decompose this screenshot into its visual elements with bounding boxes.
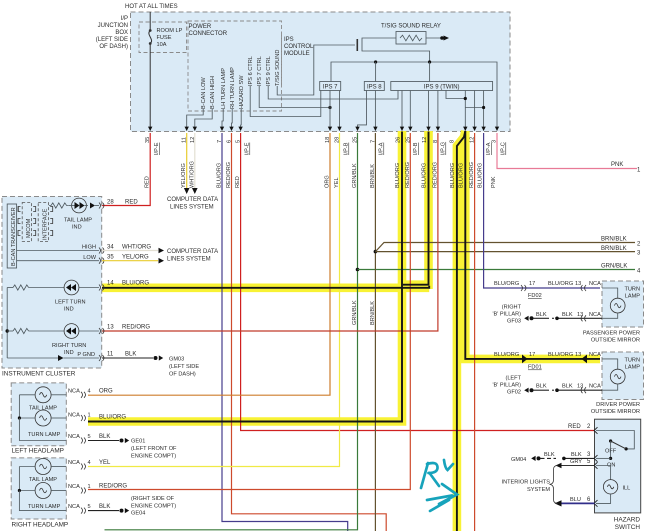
wire RED/ORG pin12 long run to bottom [474, 133, 476, 531]
B-CAN HIGH wire [17, 250, 99, 252]
left headlamp box [11, 383, 66, 446]
svg-text:TURN: TURN [624, 358, 640, 364]
wire RED pin5 to hazard switch [241, 133, 595, 431]
left headlamp inner vertical [18, 395, 20, 418]
svg-text:I/P-A: I/P-A [379, 142, 385, 155]
wire from box top to fuse [149, 12, 151, 30]
IPS 6 CTRL lead to IPS7 block [250, 86, 321, 117]
black core BLU/ORG pin8 wire down past annotation [457, 131, 465, 531]
T/SIG sound relay coil box [396, 32, 426, 45]
svg-text:18: 18 [325, 137, 331, 143]
right headlamp BLK lead [19, 491, 66, 511]
B-CAN LOW wire [17, 260, 99, 262]
ground GF02 symbol [524, 388, 528, 393]
svg-text:T/SIG SOUND: T/SIG SOUND [275, 50, 281, 86]
RH TURN LAMP label lead to pin 6 [231, 109, 234, 131]
wire BRN/BLK branch 2 to right edge [375, 243, 635, 252]
IPS 8 block [364, 82, 384, 91]
T/SIG SOUND lead to relay contact [277, 45, 355, 95]
svg-text:IPS: IPS [284, 37, 294, 43]
svg-text:BLU/ORG: BLU/ORG [494, 281, 519, 287]
wire RED/ORG pin25 to right headlamp turn lamp [88, 133, 410, 490]
svg-text:BLK: BLK [544, 452, 555, 458]
svg-text:IND: IND [72, 225, 82, 231]
svg-text:JUNCTION: JUNCTION [98, 23, 128, 29]
wire BLU/ORG I/P-A to passenger mirror [484, 133, 600, 288]
svg-text:ILL: ILL [623, 485, 631, 491]
svg-text:RED/ORG: RED/ORG [122, 325, 150, 331]
svg-text:NCA: NCA [589, 281, 601, 287]
svg-text:BLU/ORG: BLU/ORG [494, 352, 519, 358]
wire BRN/BLK pin7 long run to bottom [374, 133, 376, 531]
IPS 9 (TWIN) block [391, 82, 493, 91]
svg-text:ORG: ORG [99, 388, 113, 394]
wire YEL pin28 to right headlamp tail lamp [88, 133, 340, 467]
svg-text:(LEFT: (LEFT [505, 376, 521, 382]
svg-text:4: 4 [88, 460, 91, 466]
wire RED/ORG pin6 long run to bottom [232, 133, 387, 531]
svg-text:LINES SYSTEM: LINES SYSTEM [167, 257, 211, 263]
svg-text:INTERFACE: INTERFACE [43, 208, 49, 240]
svg-text:SYSTEM: SYSTEM [527, 487, 550, 493]
svg-text:NCA: NCA [589, 352, 601, 358]
IPS9 inner jog wires [446, 91, 465, 99]
B-CAN HIGH label lead to pin 12 [195, 109, 212, 131]
svg-text:BLU/ORG: BLU/ORG [99, 415, 126, 421]
svg-text:SWITCH: SWITCH [615, 524, 641, 531]
right headlamp turn lamp bulb [19, 483, 66, 499]
tail lamp ind resistor [49, 203, 69, 208]
svg-text:ROOM LP: ROOM LP [157, 28, 183, 34]
svg-text:1: 1 [88, 484, 91, 490]
svg-text:TURN LAMP: TURN LAMP [28, 432, 61, 438]
svg-text:B-CAN TRANSCEIVER: B-CAN TRANSCEIVER [11, 207, 17, 266]
passenger power outside mirror box [602, 281, 644, 327]
svg-text:IPS 9 (TWIN): IPS 9 (TWIN) [424, 85, 460, 91]
svg-text:(LEFT FRONT OF: (LEFT FRONT OF [131, 446, 177, 452]
svg-text:11: 11 [182, 137, 188, 143]
cluster pin labels [107, 200, 151, 358]
svg-text:FD02: FD02 [528, 293, 542, 299]
wire BLU/ORG pin7 long run to bottom [222, 133, 348, 531]
cluster edge connector marks [99, 203, 104, 362]
LH TURN LAMP label lead to pin 7 [222, 109, 223, 131]
svg-text:BLU/ORG: BLU/ORG [217, 163, 223, 188]
svg-text:NCA: NCA [68, 460, 80, 466]
svg-text:13: 13 [577, 312, 583, 318]
svg-text:8: 8 [450, 140, 456, 143]
svg-text:NCA: NCA [68, 413, 80, 419]
hazard switch box [595, 419, 641, 513]
svg-text:YEL: YEL [334, 177, 340, 188]
svg-text:10A: 10A [157, 42, 167, 48]
BLK wire to GE01 [88, 440, 119, 442]
svg-text:NCA: NCA [68, 504, 80, 510]
BLK wire GF03 to mirror [534, 317, 603, 319]
svg-text:28: 28 [107, 200, 114, 206]
svg-text:YEL: YEL [99, 460, 111, 466]
hazard ILL bulb [603, 480, 630, 494]
IPS 9 CTRL lead to IPS9 block [268, 86, 398, 99]
left turn ind resistor [7, 285, 64, 290]
svg-text:BLU/ORG: BLU/ORG [122, 281, 149, 287]
IPS9 top pin wire [429, 62, 431, 82]
GRY wire with arrow [561, 465, 595, 467]
yellow highlighter band over BLU/ORG wire to driver mirror [465, 131, 600, 359]
BLK wire pin11 to GM03 ground [102, 357, 153, 359]
svg-text:BRN/BLK: BRN/BLK [601, 246, 627, 252]
IPS8 output staircase to GRN/BLK pin 25 [358, 91, 367, 131]
black core BLU/ORG pin12 wire [403, 132, 429, 285]
svg-text:TAIL LAMP: TAIL LAMP [29, 477, 57, 483]
svg-text:OUTSIDE MIRROR: OUTSIDE MIRROR [591, 338, 640, 344]
svg-text:BLU/ORG: BLU/ORG [458, 163, 464, 188]
junction dot IPS9 feed [428, 60, 431, 63]
driver power outside mirror box [602, 352, 644, 400]
svg-text:WHT/ORG: WHT/ORG [189, 161, 195, 188]
FD02 connector marks [521, 285, 586, 291]
svg-text:IND: IND [64, 350, 74, 356]
svg-text:MICOM: MICOM [26, 218, 32, 238]
svg-text:BLK: BLK [562, 312, 573, 318]
svg-text:BLK: BLK [536, 312, 547, 318]
right headlamp connector labels [68, 460, 91, 510]
svg-text:12: 12 [422, 137, 428, 143]
svg-text:'B' PILLAR): 'B' PILLAR) [492, 312, 521, 318]
BLK wire GF02 to mirror [534, 389, 603, 391]
svg-text:6: 6 [227, 140, 233, 143]
svg-text:BLK: BLK [99, 434, 110, 440]
svg-text:35: 35 [107, 255, 114, 261]
svg-text:GF03: GF03 [507, 319, 521, 325]
svg-text:1: 1 [88, 413, 91, 419]
hazard switch internal feed wire [596, 431, 634, 449]
relay output wire with dot and arrow [426, 37, 443, 39]
svg-text:RIGHT HEADLAMP: RIGHT HEADLAMP [12, 522, 69, 529]
svg-text:BLU/ORG: BLU/ORG [450, 163, 456, 188]
I/P junction box / IPS control module main box [131, 12, 511, 132]
svg-text:HAZARD: HAZARD [614, 517, 641, 524]
svg-text:NCA: NCA [589, 312, 601, 318]
wire RED/ORG pin8 to cluster pin13 [102, 133, 438, 331]
BLK wire to GE04 [88, 510, 119, 512]
svg-text:IPS 7: IPS 7 [323, 85, 338, 91]
svg-text:17: 17 [529, 281, 535, 287]
YEL pin 28 wire inside box [339, 91, 341, 131]
black core cluster pin14 BLU/ORG wire [102, 286, 429, 288]
IPS bus wire y62 [331, 62, 497, 131]
svg-text:I/P-G: I/P-G [441, 142, 447, 155]
hazard switch blade OFF [605, 439, 628, 454]
svg-text:I/P: I/P [121, 16, 128, 22]
svg-text:BLU/ORG: BLU/ORG [548, 281, 573, 287]
svg-text:RED: RED [125, 200, 138, 206]
yellow highlighter band over BLU/ORG pin12 wire [403, 131, 429, 285]
hazard connector chevrons [594, 427, 598, 506]
wire RED pin35 to cluster pin28 [102, 133, 150, 206]
svg-text:FUSE: FUSE [157, 35, 172, 41]
svg-text:HOT AT ALL TIMES: HOT AT ALL TIMES [125, 4, 178, 10]
svg-text:TURN LAMP: TURN LAMP [28, 504, 61, 510]
svg-text:RED/ORG: RED/ORG [405, 162, 411, 188]
box texts [96, 4, 441, 57]
left headlamp BLK lead [19, 418, 66, 441]
svg-text:NCA: NCA [589, 384, 601, 390]
svg-text:INTERIOR LIGHTS: INTERIOR LIGHTS [502, 480, 551, 486]
svg-text:YEL/ORG: YEL/ORG [122, 255, 149, 261]
svg-text:IPS 7 CTRL: IPS 7 CTRL [257, 56, 263, 86]
svg-text:I/P-B: I/P-B [413, 142, 419, 155]
svg-text:BLK: BLK [571, 452, 582, 458]
svg-text:ORG: ORG [325, 175, 331, 188]
svg-text:5: 5 [88, 504, 91, 510]
svg-text:RIGHT TURN: RIGHT TURN [52, 343, 86, 349]
svg-text:28: 28 [335, 137, 341, 143]
svg-text:OUTSIDE MIRROR: OUTSIDE MIRROR [591, 409, 640, 415]
fuse F1 room LP fuse [149, 29, 152, 45]
svg-text:4: 4 [88, 388, 91, 394]
IPS7 output wire to ORG pin 18 [329, 91, 331, 131]
ground GE04 symbol [120, 509, 124, 513]
wire ORG pin18 to left headlamp tail lamp [88, 133, 330, 395]
BLU wire with arrow [561, 502, 595, 504]
svg-text:MODULE: MODULE [284, 51, 310, 57]
room LP fuse dashed box [139, 22, 187, 53]
svg-text:LH TURN LAMP: LH TURN LAMP [221, 68, 227, 109]
left headlamp tail lamp bulb [19, 387, 66, 403]
wire GRN/BLK branch 4 to right edge [358, 269, 636, 271]
svg-text:RED/ORG: RED/ORG [226, 162, 232, 188]
junction dot IPS7 ctrl / ORG output [328, 106, 331, 109]
svg-text:5: 5 [88, 434, 91, 440]
junction dot BRN/BLK [374, 250, 378, 254]
P GND wire with diode [7, 355, 99, 361]
wire BRN/BLK branch 3 to right edge [375, 251, 635, 253]
svg-text:25: 25 [353, 137, 359, 143]
svg-text:COMPUTER DATA: COMPUTER DATA [167, 249, 218, 255]
right headlamp tail lamp bulb [19, 459, 66, 475]
rotated wire color labels below box border [145, 161, 497, 188]
svg-text:RED/ORG: RED/ORG [99, 484, 127, 490]
svg-text:GRY: GRY [570, 459, 582, 465]
svg-text:GRN/BLK: GRN/BLK [352, 163, 358, 188]
svg-text:BLK: BLK [562, 384, 573, 390]
svg-text:OF DASH): OF DASH) [169, 372, 196, 378]
svg-text:13: 13 [575, 281, 581, 287]
svg-text:WHT/ORG: WHT/ORG [122, 245, 151, 251]
svg-text:(RIGHT SIDE OF: (RIGHT SIDE OF [131, 496, 175, 502]
svg-text:34: 34 [107, 245, 114, 251]
svg-text:(LEFT SIDE: (LEFT SIDE [169, 364, 199, 370]
svg-text:RED: RED [568, 424, 581, 430]
relay contact bar [356, 39, 358, 51]
svg-text:HAZARD SW: HAZARD SW [239, 75, 245, 109]
svg-text:(RIGHT: (RIGHT [502, 305, 522, 311]
B-CAN transceiver box [7, 204, 17, 268]
FD01 connector row labels [494, 352, 601, 371]
svg-text:I/P-C: I/P-C [501, 142, 507, 155]
svg-text:LAMP: LAMP [625, 294, 641, 300]
driver mirror turn lamp bulb [602, 359, 625, 390]
svg-text:PNK: PNK [491, 176, 497, 188]
svg-text:CONNECTOR: CONNECTOR [189, 31, 228, 37]
computer data lines arrows (cluster) [102, 250, 158, 252]
svg-text:BLK: BLK [125, 352, 136, 358]
svg-text:11: 11 [107, 352, 114, 358]
svg-text:GM04: GM04 [511, 457, 526, 463]
svg-text:IPS 8: IPS 8 [367, 85, 382, 91]
svg-text:GRN/BLK: GRN/BLK [352, 300, 358, 325]
svg-text:HIGH: HIGH [82, 245, 96, 251]
wire GRN/BLK pin25 long run [105, 133, 358, 530]
B-CAN LOW label lead to pin 11 [187, 109, 204, 131]
ground GM03 symbol [154, 356, 158, 360]
svg-text:I/P-E: I/P-E [154, 142, 160, 155]
svg-text:POWER: POWER [189, 24, 212, 30]
svg-text:LINES SYSTEM: LINES SYSTEM [170, 205, 214, 211]
relay coil return wire [362, 38, 430, 62]
svg-text:RED: RED [235, 176, 241, 188]
IPS 7 CTRL lead tap on ORG output [259, 86, 330, 108]
black core BLU/ORG wire to driver mirror FD01 [465, 131, 600, 359]
instrument cluster box [2, 197, 102, 369]
svg-text:3: 3 [492, 140, 498, 143]
left headlamp turn lamp bulb [19, 410, 66, 426]
svg-text:NCA: NCA [68, 484, 80, 490]
svg-text:NCA: NCA [68, 388, 80, 394]
junction dot GRN/BLK [356, 268, 360, 272]
ground GF03 symbol [524, 316, 528, 321]
svg-text:13: 13 [107, 325, 114, 331]
svg-text:BLK: BLK [536, 384, 547, 390]
svg-text:LOW: LOW [83, 255, 96, 261]
svg-text:IPS 6 CTRL: IPS 6 CTRL [248, 56, 254, 86]
black core BLU/ORG pin26 wire to left headlamp turn lamp [88, 132, 402, 422]
svg-text:14: 14 [107, 281, 114, 287]
IPS 7 block [320, 82, 341, 91]
relay coil resistor zigzag [400, 35, 422, 41]
svg-text:BLK: BLK [99, 504, 110, 510]
right headlamp inner vertical [18, 467, 20, 491]
svg-text:TAIL LAMP: TAIL LAMP [64, 218, 92, 224]
hazard switch pole wire [610, 441, 612, 458]
svg-text:LAMP: LAMP [625, 365, 641, 371]
passenger mirror turn lamp bulb [602, 288, 625, 318]
svg-text:'B' PILLAR): 'B' PILLAR) [492, 383, 521, 389]
svg-text:GRN/BLK: GRN/BLK [601, 264, 627, 270]
svg-text:I/P-A: I/P-A [486, 142, 492, 155]
svg-text:RED/ORG: RED/ORG [432, 162, 438, 188]
hazard ILL lamp internal wires [596, 466, 611, 480]
svg-text:BOX: BOX [115, 30, 128, 36]
svg-text:LEFT HEADLAMP: LEFT HEADLAMP [12, 448, 64, 455]
svg-text:GF02: GF02 [507, 390, 521, 396]
internal bracket connectors [18, 207, 53, 236]
INTERFACE dashed box [38, 203, 48, 242]
svg-text:26: 26 [396, 137, 402, 143]
svg-text:GM03: GM03 [169, 357, 184, 363]
svg-text:IND: IND [64, 307, 74, 313]
svg-text:T/SIG SOUND RELAY: T/SIG SOUND RELAY [381, 24, 441, 30]
svg-text:I/P-B: I/P-B [344, 142, 350, 155]
svg-text:RED/ORG: RED/ORG [469, 162, 475, 188]
svg-text:B-CAN HIGH: B-CAN HIGH [210, 76, 216, 109]
MICOM dashed box [22, 203, 32, 242]
svg-text:17: 17 [529, 352, 535, 358]
BLK row hazard [596, 457, 611, 459]
svg-text:I/P-E: I/P-E [245, 142, 251, 155]
hand-drawn teal annotation R with arrow [421, 460, 457, 511]
interior lights system bracket [550, 466, 558, 504]
svg-text:(LEFT SIDE: (LEFT SIDE [96, 37, 128, 43]
svg-text:12: 12 [190, 137, 196, 143]
HAZARD SW label lead to pin 5 [240, 109, 243, 131]
cluster left vertical bus [6, 288, 8, 359]
svg-text:BLU: BLU [570, 497, 581, 503]
svg-text:ENGINE COMPT): ENGINE COMPT) [131, 454, 176, 460]
yellow highlighter band over cluster pin14 wire [102, 283, 429, 292]
svg-text:P GND: P GND [77, 352, 95, 358]
svg-text:7: 7 [217, 140, 223, 143]
FD02 connector row labels [494, 281, 601, 299]
svg-text:GE04: GE04 [131, 511, 145, 517]
FD01 connector arrows [522, 355, 528, 364]
arrowhead end WHT/ORG [192, 188, 198, 194]
IPS8 output wire to BRN/BLK pin 7 [374, 91, 376, 131]
rotated pin numbers below box border [145, 137, 497, 143]
svg-text:DRIVER POWER: DRIVER POWER [596, 402, 640, 408]
left turn ind LED [64, 280, 99, 295]
svg-text:ENGINE COMPT): ENGINE COMPT) [131, 504, 176, 510]
svg-text:13: 13 [577, 384, 583, 390]
svg-text:INSTRUMENT CLUSTER: INSTRUMENT CLUSTER [2, 371, 76, 378]
wire YEL/ORG pin11 to computer data lines [186, 133, 188, 188]
svg-text:BRN/BLK: BRN/BLK [370, 164, 376, 188]
tail lamp ind LED [69, 198, 88, 213]
svg-text:7: 7 [370, 140, 376, 143]
IPS8 top pin wire [375, 62, 377, 82]
junction dot IPS8 feed [374, 60, 377, 63]
power connector dashed box [188, 21, 282, 111]
svg-text:BLU/ORG: BLU/ORG [395, 163, 401, 188]
svg-text:TURN: TURN [624, 287, 640, 293]
svg-text:RH TURN LAMP: RH TURN LAMP [230, 67, 236, 109]
arrowhead end YEL/ORG [184, 188, 190, 194]
svg-text:PNK: PNK [611, 162, 623, 168]
svg-text:8: 8 [433, 140, 439, 143]
svg-text:BRN/BLK: BRN/BLK [601, 237, 627, 243]
yellow highlighter band over BLU/ORG pin8 wire [457, 131, 465, 531]
svg-text:NCA: NCA [68, 434, 80, 440]
svg-text:13: 13 [575, 352, 581, 358]
right headlamp box [11, 458, 66, 519]
svg-text:35: 35 [145, 137, 151, 143]
wire WHT/ORG pin12 to computer data lines [194, 133, 196, 188]
junction dot cluster bus [6, 329, 9, 332]
right turn ind resistor [7, 328, 64, 333]
yellow highlighter band over BLU/ORG pin26 wire to left headlamp [88, 131, 402, 422]
svg-text:BRN/BLK: BRN/BLK [370, 301, 376, 325]
rotated connector names below box border [154, 142, 507, 155]
left headlamp connector labels [68, 388, 91, 440]
svg-text:25: 25 [405, 137, 411, 143]
svg-text:5: 5 [236, 140, 242, 143]
svg-text:LEFT TURN: LEFT TURN [55, 300, 86, 306]
svg-text:BLU/ORG: BLU/ORG [548, 352, 573, 358]
wire PNK pin3 to right edge [497, 133, 637, 169]
svg-text:IPS 9 CTRL: IPS 9 CTRL [266, 56, 272, 86]
svg-text:GE01: GE01 [131, 439, 145, 445]
